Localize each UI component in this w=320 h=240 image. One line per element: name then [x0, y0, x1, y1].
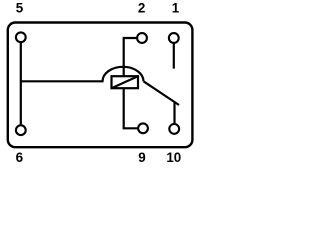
svg-text:1: 1	[172, 1, 180, 16]
svg-text:5: 5	[16, 1, 24, 16]
svg-text:6: 6	[16, 150, 23, 165]
svg-text:9: 9	[138, 150, 145, 165]
svg-text:2: 2	[138, 1, 145, 16]
svg-text:10: 10	[166, 150, 181, 165]
